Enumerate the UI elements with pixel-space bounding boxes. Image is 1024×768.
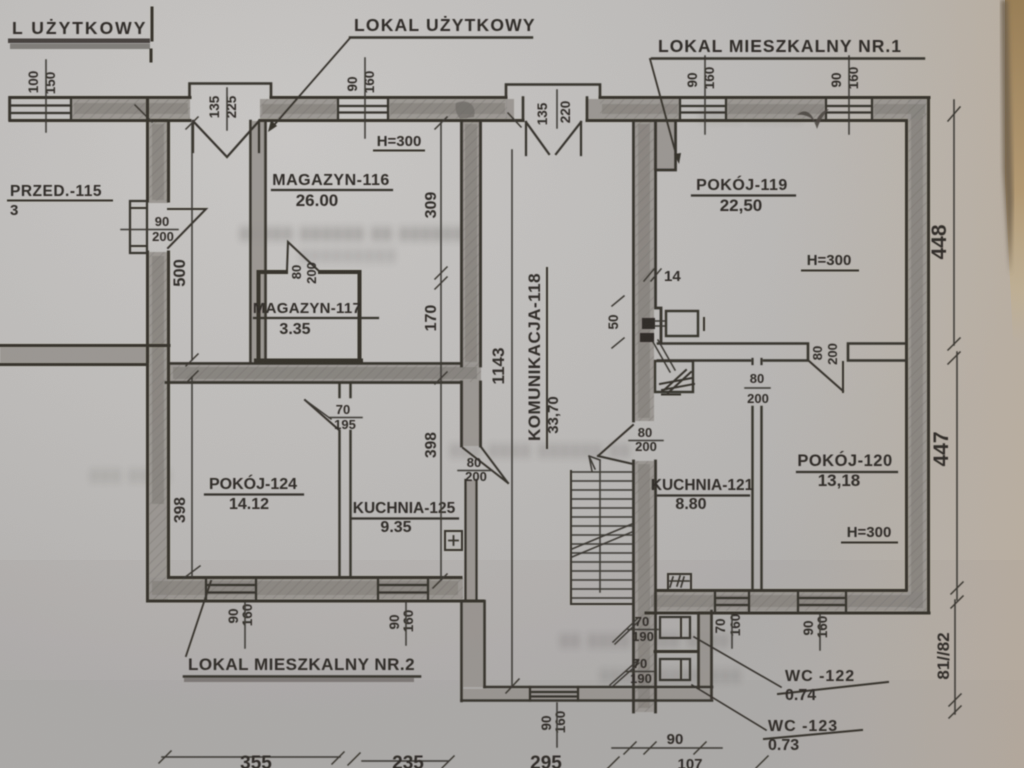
kuchnia125 door 80/200 swing [463, 447, 508, 483]
tick at entrance left jamb [508, 113, 521, 127]
window W3 dim label 90/160 [685, 67, 717, 90]
wc right wall fill [698, 611, 712, 688]
left door dim label 90/200 [152, 214, 174, 244]
interior vertical wall (magazyn west) [251, 121, 266, 362]
door D2 dim label 135/220 [535, 101, 573, 126]
right exterior wall fill [908, 99, 927, 612]
wc-123 door dim label 70/190 [630, 656, 652, 686]
top exterior wall inner line [10, 119, 906, 122]
magazyn-117 partition box [256, 272, 361, 362]
top wall fill: recess2 jambs [506, 99, 514, 119]
door D1 135/225 double swing [193, 121, 259, 157]
przedpokoj bottom wall [0, 346, 169, 365]
pokoj124/kuchnia125 partition [340, 383, 351, 577]
wc divider wall [655, 650, 698, 653]
left wall door/window symbol 90/200 [130, 201, 147, 253]
magazyn-117 door dim label 80/200 [289, 262, 319, 284]
annex bottom wall [462, 687, 713, 701]
top wall fill: recess2 to window W3 [600, 99, 680, 119]
pokoj119 left wall stub fill [654, 121, 674, 170]
kuchnia125 door dim label 80/200 [465, 455, 487, 484]
diagonal pair from box2 [653, 340, 675, 372]
corridor right wall [634, 121, 662, 712]
magazyn-117 door swing [287, 242, 320, 272]
corridor left wall fill [462, 121, 481, 366]
corridor left wall lower thin part [466, 480, 477, 601]
pokoj124 door leaf 70/195 [305, 400, 339, 430]
partition kuchnia121/pokoj120 [753, 407, 762, 590]
leader to wc-123 [692, 685, 766, 730]
window W7 90/160 (annex) [530, 687, 578, 701]
pokoj119 bottom wall (thin double) [658, 344, 906, 361]
window W6 dim label 90/160 [387, 610, 416, 633]
leader to wc-122 [694, 637, 781, 687]
recess 1 outline (porch niche) [190, 84, 272, 98]
przedpokoj bottom wall fill [0, 347, 149, 363]
window W6 90/160 (bottom) [378, 578, 428, 602]
window W4 90/160 [826, 98, 872, 121]
left exterior wall fill [149, 119, 168, 203]
heater connection lines [655, 321, 666, 326]
left exterior wall [148, 98, 169, 602]
kitchen/pokoj120 bottom wall [646, 591, 929, 614]
leader to bottom wall [186, 581, 211, 656]
pokoj119 door 80/200 swing into pokoj120 [809, 361, 843, 392]
partition top stub [753, 359, 762, 364]
top wall fill: between recess1 and window W2 [260, 99, 338, 119]
pokoj124 door dim label 70/195 [334, 402, 356, 432]
tick at recess1 left [135, 105, 152, 122]
top exterior wall outer line [10, 96, 929, 99]
window W5 90/160 (bottom) [206, 578, 256, 602]
radiator black box 1 [642, 318, 655, 329]
corridor right wall fill [635, 121, 654, 421]
left dim 398 [191, 377, 193, 577]
kitchen/pokoj120 bottom wall fill [648, 592, 927, 611]
wc-122 door dim label 70/190 [632, 614, 654, 644]
partition door dim label 80/200 rotated [747, 371, 769, 406]
slightly darker lower area [0, 560, 1024, 768]
bottom dim 235 [362, 760, 448, 762]
kuchnia125 plus box [445, 531, 462, 550]
corridor dim 1143 [511, 150, 513, 687]
stairs direction arrow [589, 456, 600, 592]
right exterior wall [907, 98, 929, 614]
leader to pokoj-119 [650, 59, 677, 158]
corridor-kuchnia121 door dim label 80/200 [635, 425, 657, 454]
dark check scribble on wall [797, 109, 829, 129]
big horizontal wall under magazyn [166, 364, 461, 383]
stairs left edge [571, 471, 633, 604]
left door swing into przedpokoj [168, 209, 206, 248]
window W2 dim label 90/160 [345, 71, 377, 94]
right dim 447 [956, 352, 958, 600]
bottom wall lokal2 outer/inner lines [148, 578, 484, 602]
ghost bleed-through text [90, 107, 804, 684]
darker graphite streaks inside walls [74, 103, 925, 708]
smudge at corridor top junction [456, 101, 475, 119]
annex bottom wall fill [463, 689, 711, 699]
window W2 90/160 [338, 98, 388, 121]
kuchnia121 flue box at wall [668, 574, 691, 590]
right dim 448 [953, 100, 955, 345]
big horizontal wall fill (under magazyn) [169, 365, 481, 382]
annex left wall fill [463, 601, 483, 687]
middle dim line 309/170/398 [440, 123, 442, 580]
top wall fill: W4 to right corner [872, 99, 927, 119]
stairs treads [571, 472, 633, 598]
leader to magazyn-116 [275, 38, 350, 124]
heater open box [666, 311, 698, 336]
left dim 500 [191, 123, 193, 360]
window W4 dim label 90/160 [829, 67, 861, 90]
wc top wall [655, 612, 698, 614]
window W5 dim label 90/160 [226, 604, 255, 627]
recess 2 outline (entrance niche) [506, 85, 600, 98]
window W1 dim label 100/150 [26, 71, 58, 95]
top wall fill: left of recess1 [71, 99, 190, 119]
window W9 dim label 90/160 [801, 616, 830, 639]
bottom wall lokal2 fill [149, 578, 463, 599]
bottom right tick [756, 756, 768, 768]
annex left wall [462, 601, 485, 701]
bottom dim 355 [162, 756, 340, 758]
stairs break diagonals [572, 524, 632, 557]
top wall fill: W3 to W4 [726, 99, 826, 119]
bottom ticks [332, 752, 360, 765]
wc right wall [699, 611, 712, 698]
window W9 90/160 (pokoj120) [798, 591, 846, 614]
window W8 dim label 70/160 [713, 614, 743, 637]
table edge visible top-right [1005, 0, 1024, 345]
separator bar after title [151, 8, 152, 61]
corridor left wall [462, 121, 481, 446]
door D1 dim label 135/225 [207, 95, 239, 118]
corridor to kuchnia121 door leaf [598, 425, 633, 464]
window W1 100/150 [10, 98, 71, 121]
entrance jambs [523, 98, 587, 121]
entrance door D2 135/220 leaves [526, 122, 581, 155]
top wall fill: between W2 and recess2 [388, 99, 507, 119]
right dim 81/82 [954, 600, 956, 714]
hash symbol [660, 370, 694, 393]
wc-123 toilet [660, 659, 690, 680]
wc-122 door leaf [613, 619, 639, 644]
paper edge shadow line [1001, 0, 1013, 275]
bottom dim 90 [612, 747, 722, 749]
window W3 90/160 [680, 98, 726, 121]
wc-123 door leaf [610, 661, 639, 687]
przedpokoj left partial wall at paper edge [8, 98, 11, 121]
window W8 70/160 (kuchnia121) [715, 591, 749, 614]
flue box with hash [655, 361, 693, 392]
window W7 dim label 90/160 [539, 711, 568, 734]
pokoj119 left wall stub [656, 121, 676, 170]
radiator black box 2 [640, 333, 654, 342]
step dim 14 [644, 269, 661, 281]
pokoj119 door dim label 80/200 rotated [810, 343, 840, 365]
interior vertical wall magazyn fill [252, 121, 265, 362]
wc-122 toilet [660, 617, 690, 638]
